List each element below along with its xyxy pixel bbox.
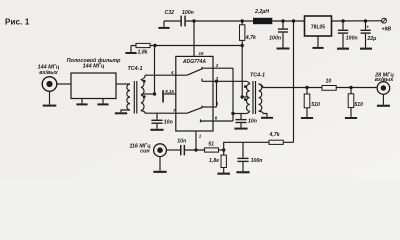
svg-text:10n: 10n [248,119,257,125]
switch SW1 contact pin 3 [201,79,203,82]
svg-text:22µ: 22µ [366,36,376,42]
pin 2 wire [202,67,233,69]
output line to attenuator [336,87,377,89]
svg-text:78L05: 78L05 [311,24,325,30]
node bias rail right [241,44,244,47]
svg-text:4,7k: 4,7k [269,132,281,138]
transformer T1 polarity dot upper [143,80,146,83]
transformer T1 core [133,81,135,114]
transformer T1 primary bottom lead to ground [121,110,130,112]
op IC U1 ADG774A box [176,56,213,131]
node pin2-6 to T2 bottom [231,112,234,115]
switch SW1 contact pin 2 [201,67,203,70]
svg-text:2: 2 [215,63,219,68]
node bias / center tap junction [153,92,156,95]
transformer T2 core [252,81,254,114]
node after 51 [222,148,225,151]
capacitor C32 100n [164,10,194,26]
bias rail wire [150,45,242,47]
transformer T2 primary winding [247,84,250,111]
ground under 28 МГц connector [377,94,390,106]
node rail 4,7k [241,19,244,22]
node bias feed [292,19,295,22]
ground left of C32 [158,21,169,29]
node rail pin16 [192,19,195,22]
bandpass filter box 144 МГц [67,57,122,99]
capacitor 10n series LO [177,138,186,155]
ground under T2 secondary [261,117,273,119]
svg-text:144 МГц: 144 МГц [83,64,105,70]
svg-text:8,15: 8,15 [165,89,174,94]
resistor 51 [205,141,219,152]
switch SW2 contact pin 5 [201,106,203,109]
transformer T2 secondary top lead to output [259,84,322,88]
svg-text:ТС4-1: ТС4-1 [128,66,143,72]
connector XW2 28 МГц [374,72,394,94]
transformer T1 secondary bottom lead / wire to pin 7 [141,111,187,114]
wire bias to T1 center tap [154,46,156,95]
capacitor C 10n at T2 [234,114,257,130]
ground stub 2 under filter [97,99,108,106]
svg-text:ADG774A: ADG774A [182,59,206,65]
transformer T1 polarity dot lower [143,95,146,98]
svg-text:10: 10 [326,79,332,85]
top +5V rail [186,20,253,22]
node bias rail left [153,44,156,47]
background paper [0,0,400,178]
wire connector to 10n [166,149,180,151]
wire 10n to node [185,149,205,151]
transformer T1 secondary winding [141,80,144,111]
terminal +9V [382,18,392,32]
ground under 510 left [301,117,313,119]
pin 5 wire [202,106,217,108]
svg-text:син: син [140,148,150,154]
node 100n after inductor [281,19,284,22]
transformer T2 bottom lead [246,111,250,113]
resistor 1,8k lower [209,150,226,173]
ground stub 1 under filter [76,99,87,106]
resistor 4,7k vertical [240,21,258,46]
svg-text:100n: 100n [251,158,263,164]
rail inductor to 78L05 [272,20,304,22]
capacitor C 10n at T1 secondary [150,113,172,131]
switch SW2 contact pin 6 [200,119,202,122]
resistor 10 series [322,79,336,91]
svg-text:510: 510 [311,102,320,108]
transformer T2 polarity dot upper [244,85,247,88]
pin 3 wire [202,80,246,82]
wire filter to transformer T1 [116,83,130,85]
resistor 510 left [304,88,320,118]
svg-text:4: 4 [170,70,174,75]
capacitor plate / pins 8,15 stub [162,89,176,103]
capacitor 22µ electrolytic [360,21,376,50]
svg-text:16: 16 [199,51,204,56]
svg-text:100n: 100n [182,10,194,16]
transformer T2 primary top lead from pin 3 [246,81,250,84]
ground under 144 МГц connector [43,91,57,107]
ground under 78L05 [312,36,323,49]
wire node up and right to 4,7k [224,142,269,150]
wire joining pins 3 and 5 [216,81,218,107]
ground under 510 right [345,117,357,119]
svg-text:10n: 10n [177,138,186,144]
ground left of 1,8k [125,46,136,55]
svg-text:10n: 10n [164,120,173,126]
capacitor 100n at input [337,21,358,50]
wire 51 to node [219,149,224,151]
wire 4,7k to +5V feed [283,141,293,143]
svg-text:C32: C32 [165,10,175,16]
inductor 2,2µH [253,9,272,24]
connector XW1 144 МГц [38,65,60,92]
wire node to T2 bottom [233,113,246,115]
svg-text:ТС4-1: ТС4-1 [250,73,265,79]
svg-text:вх/вых: вх/вых [39,70,59,76]
transformer T2 polarity dot lower [244,98,247,101]
pin 16 stem [193,21,195,56]
svg-text:100n: 100n [346,35,358,41]
wire +5V feed to 4,7k bottom [293,21,295,142]
switch SW1 arm [187,69,202,75]
svg-text:2,2µН: 2,2µН [254,9,269,15]
svg-text:вх/вых: вх/вых [375,77,395,83]
svg-text:510: 510 [354,102,363,108]
svg-text:1,8k: 1,8k [138,50,149,56]
svg-text:51: 51 [208,141,214,147]
pin 6 wire [201,120,234,122]
node 100n at 78L05 input [341,19,344,22]
node pin1 LO [194,148,197,151]
transformer T1 primary winding [127,84,130,110]
resistor 510 right [348,88,363,118]
pin 1 stem [195,131,197,150]
transformer T2 center tap wire [242,96,248,98]
node 510 left [305,86,308,89]
transformer T1 secondary top lead / wire to pin 4 [141,75,187,80]
svg-text:+9В: +9В [382,27,392,33]
node 22µ [364,19,367,22]
svg-text:+: + [366,25,369,30]
svg-text:4,7k: 4,7k [245,35,257,41]
wire joining pins 2 and 6 [232,68,234,121]
rail 78L05 to +9V [332,20,382,22]
node 510 right [349,86,352,89]
node T2 center tap junction [241,95,244,98]
transformer T1 center tap wire [142,93,155,95]
svg-text:Рис. 1: Рис. 1 [5,17,30,26]
resistor 4,7k lower [269,132,284,144]
ground under 1,8k [217,173,230,175]
switch SW2 arm [187,108,202,114]
svg-text:100n: 100n [269,36,281,42]
transformer T2 secondary bottom lead to ground [259,111,267,117]
svg-text:1,8к: 1,8к [209,158,219,164]
ground under 116 МГц connector [153,157,166,173]
capacitor 100n LO [236,142,262,173]
resistor 1,8k upper left [131,43,150,55]
capacitor 100n after inductor [269,21,289,50]
node pin3 junction [215,80,218,83]
connector XW3 116 МГц [129,143,166,156]
transformer T2 secondary winding [259,84,262,111]
wire connector to filter [57,83,71,85]
wire bias to T2 center tap [241,46,243,98]
regulator 78L05 [305,16,332,36]
